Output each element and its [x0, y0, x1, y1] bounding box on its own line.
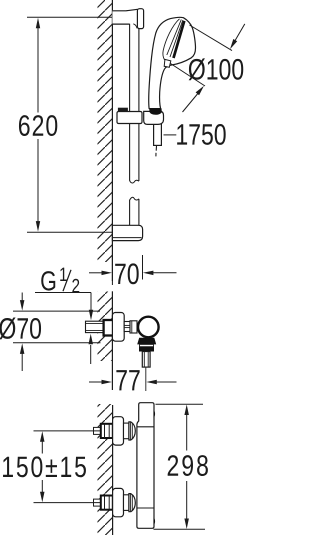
dimension label 70 [115, 263, 139, 284]
dimension label 150+-15 [3, 456, 86, 477]
escutcheon [113, 417, 124, 445]
upper union S-connection [94, 417, 136, 445]
dimension O70 extension line bottom [13, 342, 101, 344]
union cylinder [124, 495, 129, 511]
spray face lip notch [164, 59, 171, 67]
hose nut dark band [139, 347, 154, 352]
body clip upper dark [154, 410, 156, 418]
thread label G 1/2 [41, 271, 55, 290]
hand shower head and handle [149, 17, 196, 108]
in-wall pipe stub G1/2 [86, 321, 104, 332]
hose stub [155, 146, 158, 156]
face inner line 2 [170, 20, 183, 57]
dimension 150 extension line lower [34, 502, 101, 504]
spray face plate boundary [163, 19, 180, 60]
wall hatch top section [98, 0, 113, 281]
dimension label 77 [116, 370, 139, 390]
wall hex nut [101, 424, 113, 438]
hose coupling tube [142, 352, 150, 368]
dimension O70 arrows [20, 293, 25, 372]
dimension 298 extension line bottom [154, 528, 206, 530]
dimension 77 arrows [89, 380, 177, 384]
dimension 620 extension line bottom [27, 231, 112, 233]
wall hatch bottom section [98, 404, 113, 535]
shower rail tube upper segment [130, 24, 139, 183]
label 1750 leader [164, 134, 177, 136]
dimension O70 extension line top [13, 310, 100, 312]
dimension O100 extension line upper [190, 25, 233, 51]
wall hatch middle section [98, 291, 113, 390]
escutcheon [113, 488, 124, 516]
dimension O100 lower arrow [183, 86, 205, 112]
union nut [129, 422, 135, 440]
rail slider bracket [117, 108, 164, 124]
dimension label 620 [19, 115, 57, 136]
holder joint cylinder [130, 321, 137, 333]
shower rail tube lower segment [130, 197, 139, 225]
dimension 298 extension line top [156, 403, 204, 405]
wall hex nut [101, 496, 113, 510]
dimension O100 upper arrow [230, 24, 245, 49]
holder ring circle [138, 317, 159, 338]
hand shower cone in holder dark [137, 338, 156, 345]
dimension 620 line and arrows [36, 18, 40, 232]
thermostat body [137, 403, 155, 529]
supply pipe stub [94, 499, 102, 506]
shower rail top bracket [112, 9, 143, 29]
hose connector tube below holder [154, 118, 162, 156]
dimension 70 left extension line [111, 255, 113, 285]
hand shower holder cup [144, 111, 164, 124]
dimension 298 line and arrows [184, 405, 189, 530]
dimension label O100 [189, 58, 244, 80]
dimension O100 extension line lower [171, 64, 206, 87]
dimension label O70 [0, 317, 41, 339]
lower union S-connection [94, 488, 136, 516]
fraction slash [63, 270, 71, 291]
dimension label 1750 [177, 124, 226, 145]
body clip lower dark [154, 518, 156, 526]
union nut [129, 494, 135, 512]
spray face dark band [174, 21, 185, 58]
hose line below [145, 367, 147, 391]
dimension label 298 [168, 455, 208, 476]
rail bottom bracket [112, 225, 142, 240]
supply pipe stub [94, 427, 102, 434]
dimension 620 extension line top [27, 16, 112, 18]
union cylinder [124, 423, 129, 439]
hand shower cone nut dark [149, 108, 162, 115]
dimension 150 extension line upper [34, 430, 101, 432]
dimension 70 arrows [89, 271, 177, 276]
wall hex nut middle [104, 320, 115, 336]
hose connection neck [140, 344, 154, 346]
thread label G 1/2 leader [35, 293, 93, 321]
holder neck [124, 322, 130, 332]
dimension 70 right extension line [142, 255, 144, 280]
G 1/2 lower arrow at pipe bottom [89, 334, 94, 364]
wall escutcheon flange O70 [112, 313, 124, 342]
face inner line 1 [167, 20, 182, 56]
dimension 150 line and arrows [40, 431, 45, 502]
